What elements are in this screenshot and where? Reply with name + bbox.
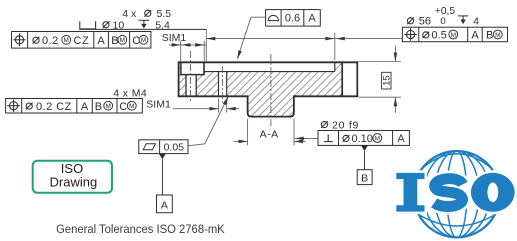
svg-text:0.10: 0.10: [352, 133, 373, 145]
svg-text:M: M: [451, 32, 456, 39]
svg-text:M: M: [64, 37, 69, 44]
svg-text:C: C: [119, 101, 127, 113]
svg-text:A: A: [471, 30, 479, 42]
svg-text:20 f9: 20 f9: [332, 119, 359, 131]
svg-text:4: 4: [473, 15, 479, 27]
svg-text:M: M: [120, 37, 125, 44]
svg-text:0.5: 0.5: [432, 30, 447, 42]
svg-text:0: 0: [440, 16, 445, 27]
svg-text:4 x: 4 x: [122, 8, 137, 20]
svg-text:15: 15: [382, 75, 393, 86]
svg-text:M: M: [129, 103, 134, 110]
svg-text:56: 56: [419, 15, 431, 27]
svg-text:0.2 CZ: 0.2 CZ: [36, 101, 72, 113]
svg-text:B: B: [486, 30, 493, 42]
svg-text:A: A: [161, 199, 168, 211]
svg-text:A: A: [308, 13, 316, 25]
svg-text:5.5: 5.5: [157, 8, 172, 20]
svg-text:0.6: 0.6: [285, 13, 300, 25]
svg-text:SIM1: SIM1: [146, 98, 171, 110]
svg-text:A: A: [81, 101, 89, 113]
svg-text:SIM1: SIM1: [162, 32, 187, 44]
svg-text:M: M: [106, 103, 111, 110]
svg-text:M: M: [375, 135, 380, 142]
svg-text:M: M: [495, 32, 500, 39]
svg-text:0.05: 0.05: [164, 141, 185, 153]
svg-text:General Tolerances ISO 2768-mK: General Tolerances ISO 2768-mK: [56, 222, 225, 236]
svg-text:M: M: [141, 37, 146, 44]
svg-text:A: A: [397, 133, 405, 145]
svg-text:A-A: A-A: [260, 128, 279, 140]
svg-text:10: 10: [113, 20, 125, 32]
svg-text:5.4: 5.4: [155, 20, 170, 32]
svg-text:Drawing: Drawing: [50, 174, 98, 189]
svg-text:B: B: [111, 35, 118, 47]
svg-text:B: B: [361, 172, 368, 184]
svg-text:B: B: [95, 101, 102, 113]
svg-text:CZ: CZ: [74, 35, 90, 47]
svg-text:0.2: 0.2: [42, 35, 59, 47]
svg-text:4 x M4: 4 x M4: [113, 88, 147, 100]
svg-text:A: A: [97, 35, 105, 47]
